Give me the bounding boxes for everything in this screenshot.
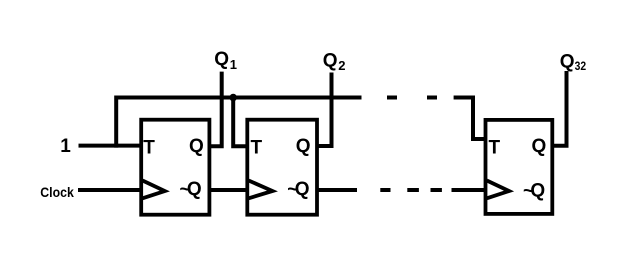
svg-text:Q: Q [296, 136, 311, 157]
flip-flop U1 clock triangle [143, 181, 165, 199]
svg-text:T: T [143, 137, 155, 158]
wire: into U3 clock pin [452, 188, 488, 192]
svg-text:Q: Q [532, 136, 547, 157]
svg-text:T: T [489, 137, 501, 158]
svg-text:Q: Q [189, 136, 204, 157]
wire: Clock input to U1 clock pin [78, 188, 142, 192]
svg-text:32: 32 [575, 59, 587, 73]
junction dot on top rail at U2.T drop [229, 94, 237, 102]
wire: top rail dash segment 2 [427, 96, 437, 100]
svg-text:1: 1 [60, 136, 71, 157]
svg-text:Q: Q [295, 179, 310, 200]
wire: U1.Q stub up to node Q1 [208, 72, 222, 147]
wire: top rail right segment down to U3.T [454, 98, 487, 140]
svg-text:Clock: Clock [40, 185, 74, 200]
wire: U2.Q stub up to node Q2 [316, 73, 332, 147]
wire: lower dash segment 1 [380, 188, 390, 192]
svg-text:T: T [251, 137, 263, 158]
svg-text:Q: Q [323, 51, 338, 72]
svg-text:Q: Q [214, 49, 229, 70]
svg-text:Q: Q [187, 179, 202, 200]
svg-text:Q: Q [560, 52, 575, 73]
flip-flop U3 clock triangle [487, 181, 509, 199]
wire: U1.~Q to U2 clock pin [208, 188, 249, 192]
flip-flop U1 box [141, 120, 209, 215]
svg-text:1: 1 [230, 57, 237, 72]
flip-flop U2 clock triangle [249, 181, 273, 199]
wire: U2.~Q output segment [316, 188, 358, 192]
wire: branch from 1-input up to top rail [116, 98, 361, 148]
wire: top rail drop to U2.T [233, 98, 248, 147]
flip-flop U3 box [486, 120, 553, 214]
svg-text:2: 2 [338, 58, 345, 73]
wire: constant-1 input to U1.T [79, 144, 143, 148]
wire: U3.Q stub up to node Q32 [551, 71, 567, 146]
wire: lower dash segment 3 [431, 188, 442, 192]
svg-text:Q: Q [530, 180, 545, 201]
wire: top rail dash segment 1 [387, 96, 397, 100]
wire: lower dash segment 2 [407, 188, 419, 192]
flip-flop U2 box [247, 120, 317, 215]
